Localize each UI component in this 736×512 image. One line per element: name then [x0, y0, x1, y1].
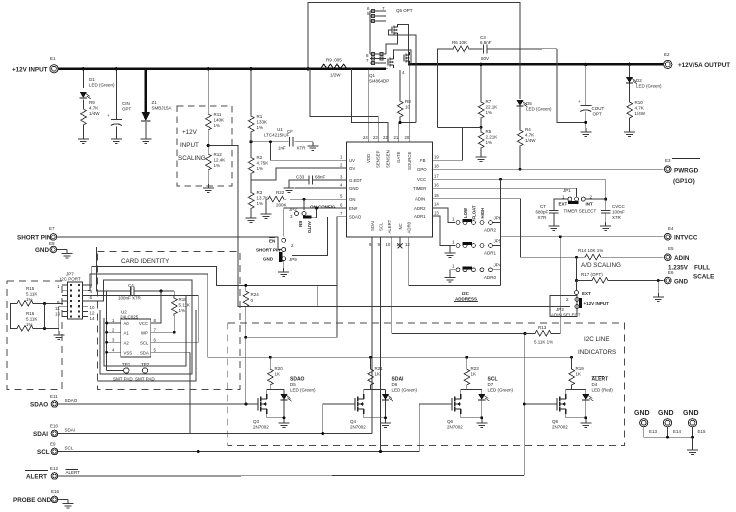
svg-text:AUTO: AUTO: [307, 221, 312, 234]
wire U2 SDA riser: [189, 352, 191, 433]
svg-text:E4: E4: [668, 226, 674, 231]
svg-text:E11: E11: [50, 394, 58, 399]
resistor R3: [248, 191, 254, 211]
ground E15: [687, 446, 698, 455]
LED D2: [629, 64, 631, 77]
svg-text:A/D SCALING: A/D SCALING: [581, 262, 621, 269]
node R11/R12 junction: [207, 144, 210, 147]
wire SDAI pin8 down: [371, 237, 373, 434]
LED D5 SDAO: [283, 390, 285, 395]
resistor R5: [478, 130, 484, 150]
svg-text:SENSEN: SENSEN: [385, 150, 390, 168]
svg-text:CIN: CIN: [122, 101, 130, 106]
svg-text:4.7K: 4.7K: [635, 106, 644, 111]
svg-text:I2C PORT: I2C PORT: [60, 276, 81, 281]
wire JP1 EXT to CT: [554, 199, 568, 210]
wire kelvin SENSEN: [352, 69, 388, 142]
terminal E13: [640, 419, 648, 427]
wire header pin4 route to indicator rail: [88, 274, 208, 290]
svg-text:680pF: 680pF: [536, 209, 549, 214]
resistor R1: [248, 114, 254, 134]
jumper JP9: [282, 238, 286, 242]
svg-text:LED (Green): LED (Green): [290, 388, 316, 393]
wire SDAO net line: [58, 403, 258, 405]
wire D1 branch: [82, 69, 84, 88]
svg-text:1%: 1%: [486, 110, 493, 115]
svg-text:21: 21: [394, 135, 399, 140]
svg-text:ADR2: ADR2: [484, 228, 497, 233]
dashed box pullups: [7, 281, 62, 390]
svg-text:SCL: SCL: [140, 340, 149, 345]
wire Q3 gate SDAO: [246, 403, 258, 405]
resistor R4: [517, 128, 523, 148]
capacitor CSS: [313, 179, 347, 181]
transistor Q5 symbol: [392, 24, 398, 36]
wire R22 to gnd: [265, 199, 267, 210]
resistor R23: [466, 357, 468, 367]
U1 bottom pin labels: [369, 219, 411, 247]
svg-text:+12V INPUT: +12V INPUT: [584, 301, 610, 306]
resistor R19: [570, 356, 573, 359]
LED D4 ALERT (Red): [585, 390, 587, 395]
svg-text:4.7K: 4.7K: [525, 133, 534, 138]
svg-text:+12V: +12V: [182, 129, 198, 136]
svg-text:ON: ON: [349, 197, 355, 202]
svg-text:VCC: VCC: [417, 177, 426, 182]
svg-text:100nF X7R: 100nF X7R: [118, 296, 142, 301]
wire Q3 source + LED cathode to gnd: [267, 414, 284, 418]
svg-text:133K: 133K: [257, 120, 268, 125]
resistor R12: [206, 152, 212, 172]
svg-text:Z1: Z1: [152, 100, 158, 105]
node U2 VCC junction: [160, 290, 163, 293]
wire R15/R16 junction risers: [44, 304, 46, 329]
capacitor CVCC: [605, 179, 607, 210]
jumper JP2 ON CONFIG: [303, 199, 305, 210]
wire Q5 gate to gate net: [389, 30, 417, 123]
ground CT: [548, 222, 559, 231]
svg-text:TIMER: TIMER: [413, 186, 426, 191]
svg-text:X7R: X7R: [538, 215, 548, 220]
svg-text:2N7002: 2N7002: [350, 425, 366, 430]
wire SCL pin9 down: [380, 237, 382, 452]
svg-text:NC: NC: [398, 223, 403, 229]
svg-text:I2C: I2C: [462, 291, 470, 296]
svg-text:I2C LINE: I2C LINE: [584, 336, 610, 343]
wire U2 right pins: [151, 332, 199, 352]
svg-text:13: 13: [55, 312, 61, 317]
U1 top pin labels: [363, 135, 412, 170]
wire ON pin5: [290, 198, 347, 200]
resistor R18 pullup: [173, 291, 175, 296]
svg-text:R1: R1: [257, 114, 263, 119]
ground below R5: [476, 153, 487, 162]
svg-text:R3: R3: [257, 190, 263, 195]
wire R8 to GATE pin: [400, 118, 416, 123]
transistor Q1 symbol b: [404, 52, 410, 64]
svg-text:13: 13: [434, 211, 439, 216]
svg-text:20: 20: [405, 135, 410, 140]
ground below R3: [246, 214, 257, 223]
svg-text:R13: R13: [538, 325, 547, 330]
resistor R7 column from output rail: [480, 64, 482, 100]
resistor R21: [370, 357, 372, 367]
pin11 NC stub with X: [399, 237, 401, 246]
svg-text:1%: 1%: [257, 125, 264, 130]
ground header odd pins: [59, 306, 62, 331]
svg-text:R11: R11: [214, 112, 222, 117]
svg-text:GND: GND: [658, 410, 674, 417]
transistor Q3: [258, 394, 267, 414]
ground below Z1: [140, 135, 151, 144]
svg-text:R9: R9: [89, 100, 95, 105]
wire FB node row: [438, 126, 482, 128]
wire SOURCE pin to output rail: [409, 64, 411, 141]
jumper JP6 ADR2: [456, 221, 460, 225]
svg-text:VSS: VSS: [124, 350, 133, 355]
resistor R8: [397, 99, 403, 119]
svg-text:24: 24: [363, 135, 368, 140]
wire Q6 gate SCL riser: [419, 404, 452, 452]
svg-text:D4: D4: [592, 382, 598, 387]
wire ALERT net line: [58, 475, 524, 478]
wire E8 to ground: [57, 249, 67, 251]
wire GND pin4: [295, 187, 347, 189]
svg-text:WP: WP: [141, 330, 148, 335]
svg-text:1%: 1%: [179, 308, 186, 313]
wire CF row: [251, 141, 289, 143]
svg-text:SDAO: SDAO: [349, 215, 362, 220]
ground below R12: [203, 184, 214, 193]
svg-text:ADR2: ADR2: [414, 206, 426, 211]
wire rail feed riser: [207, 274, 209, 357]
svg-text:Q1: Q1: [369, 73, 376, 78]
svg-text:GND: GND: [634, 410, 650, 417]
svg-text:R5: R5: [486, 129, 492, 134]
ground CF: [307, 142, 318, 151]
ground cell4: [580, 419, 591, 428]
wire ADIN pin15: [433, 199, 577, 258]
svg-text:C33: C33: [296, 175, 305, 180]
wire VCC riser to jumpers: [500, 179, 502, 285]
svg-text:1K: 1K: [275, 372, 281, 377]
svg-text:R16: R16: [26, 311, 35, 316]
wire input rail +12V: [59, 67, 387, 70]
svg-text:1%: 1%: [214, 123, 221, 128]
wire R15/R16 left tie: [11, 304, 16, 329]
svg-text:+12V INPUT: +12V INPUT: [12, 66, 48, 73]
wire U2 left pins: [107, 291, 123, 371]
wire header SCL row: [88, 296, 198, 343]
wire R6/C3 row: [438, 49, 452, 127]
svg-text:+: +: [107, 113, 110, 118]
wire TIMER pin16 to JP1: [433, 188, 577, 197]
svg-text:FULL: FULL: [694, 264, 710, 271]
resistor R14: [583, 254, 603, 260]
resistor R13: [525, 333, 533, 335]
svg-text:LED (Green): LED (Green): [526, 107, 552, 112]
svg-text:11: 11: [55, 306, 60, 311]
wire routing rect a: [104, 296, 186, 366]
ground below R9: [78, 135, 89, 144]
svg-text:22: 22: [383, 135, 388, 140]
ground JP5 left: [450, 246, 455, 250]
U1 left pin labels: [340, 155, 363, 220]
svg-text:CVCC: CVCC: [612, 204, 626, 209]
capacitor CT: [549, 210, 559, 213]
terminal E11 SDAO: [51, 401, 58, 408]
ground R22: [261, 210, 272, 219]
wire D2 to R10: [629, 83, 631, 100]
svg-text:LED (Green): LED (Green): [392, 388, 418, 393]
svg-text:ON CONFIG: ON CONFIG: [310, 205, 336, 210]
wire R11 branch: [207, 69, 209, 112]
wire R4 to GPO line: [519, 147, 521, 169]
terminal E3 PWRGD: [664, 166, 671, 173]
wire Z1 to gnd: [145, 122, 147, 135]
svg-text:R15: R15: [26, 286, 35, 291]
wire ADR0 pin12 route: [409, 237, 501, 286]
svg-text:OV: OV: [349, 166, 355, 171]
wire R24 to SDAO pin7: [246, 336, 337, 338]
svg-text:SDAO: SDAO: [30, 402, 48, 409]
svg-text:COUT: COUT: [592, 106, 605, 111]
svg-text:D5: D5: [290, 382, 296, 387]
ground E6: [657, 281, 659, 294]
svg-text:ALERT: ALERT: [66, 470, 81, 475]
svg-text:2.21K: 2.21K: [486, 135, 498, 140]
svg-text:R21: R21: [375, 366, 384, 371]
resistor R16: [15, 326, 35, 332]
svg-text:E5: E5: [668, 246, 674, 251]
resistor R22: [266, 196, 286, 202]
svg-text:1/2W: 1/2W: [330, 73, 341, 78]
svg-text:12: 12: [405, 242, 410, 247]
svg-text:R7: R7: [486, 99, 492, 104]
svg-text:JP1: JP1: [563, 188, 571, 193]
wire INTVCC riser: [500, 179, 502, 237]
terminal E8 GND: [50, 246, 57, 253]
terminal E1 +12V INPUT: [50, 65, 58, 73]
node R1/R2 junction: [249, 140, 252, 143]
svg-text:TIMER SELECT: TIMER SELECT: [564, 209, 597, 214]
svg-text:1/4W: 1/4W: [525, 138, 536, 143]
junction dots input rail: [82, 67, 310, 70]
svg-text:Q6: Q6: [447, 419, 454, 424]
terminal E9 SCL: [51, 448, 58, 455]
resistor R6: [451, 46, 471, 52]
svg-text:R2: R2: [257, 155, 263, 160]
transistor Q8: [557, 394, 566, 414]
wire R1 branch: [250, 69, 252, 114]
svg-text:5.11K: 5.11K: [26, 292, 37, 297]
svg-text:(GP1O): (GP1O): [673, 178, 695, 185]
terminal E7 SHORT PIN: [50, 234, 57, 241]
wire JP2 to EN column: [312, 208, 317, 218]
terminal E6 GND: [664, 277, 671, 284]
jumper JP5 ADR1: [456, 244, 460, 248]
svg-text:10: 10: [386, 242, 391, 247]
svg-text:1K: 1K: [576, 372, 582, 377]
jumper JP4 ADR0: [456, 268, 460, 272]
svg-text:EN#: EN#: [349, 206, 358, 211]
svg-text:SENSEP: SENSEP: [376, 150, 381, 168]
svg-text:R10: R10: [635, 100, 644, 105]
svg-text:EN: EN: [269, 238, 275, 243]
svg-text:18: 18: [434, 164, 439, 169]
svg-text:+12V/5A OUTPUT: +12V/5A OUTPUT: [678, 62, 730, 69]
svg-text:14: 14: [434, 202, 439, 207]
svg-text:EN: EN: [298, 221, 303, 227]
wire SCL net line: [58, 451, 419, 453]
wire output rail +12V/5A: [408, 63, 664, 66]
svg-text:OPT: OPT: [122, 107, 132, 112]
ground cell2: [380, 419, 391, 428]
svg-text:R20: R20: [275, 366, 284, 371]
svg-text:VCC: VCC: [139, 321, 148, 326]
wire C3 right drop: [557, 49, 586, 123]
wire ALERT pin10 down: [391, 237, 393, 334]
svg-text:50V: 50V: [481, 56, 489, 61]
wire gnd bus: [644, 427, 693, 437]
svg-text:E2: E2: [664, 52, 670, 57]
svg-text:R24: R24: [251, 292, 260, 297]
svg-text:R8: R8: [405, 99, 411, 104]
svg-text:140K: 140K: [214, 118, 225, 123]
resistor R11: [206, 112, 212, 132]
terminal E14: [663, 419, 671, 427]
svg-text:GND: GND: [35, 247, 49, 254]
svg-text:13.7K: 13.7K: [257, 196, 269, 201]
resistor R24: [245, 285, 247, 289]
svg-text:LED (Red): LED (Red): [592, 388, 614, 393]
svg-text:E3: E3: [665, 158, 671, 163]
svg-text:EXT: EXT: [559, 202, 568, 207]
wire SDAO pin7: [337, 217, 347, 338]
wire R15 to header: [34, 303, 63, 305]
svg-text:ADR0: ADR0: [484, 275, 497, 280]
svg-text:SHORT PIN: SHORT PIN: [256, 248, 281, 253]
svg-text:D5: D5: [526, 101, 532, 106]
svg-text:LED (Green): LED (Green): [89, 83, 115, 88]
ground JP4 left: [450, 270, 455, 274]
wire JP1 INT to CVCC riser: [585, 198, 605, 200]
svg-text:100nF: 100nF: [612, 209, 625, 214]
wire Q5 drain to output rail: [398, 24, 409, 64]
svg-text:INPUT: INPUT: [180, 142, 199, 149]
wire VDD pin to rail: [368, 69, 370, 142]
wire top routing box (rail to D5 anode): [308, 3, 520, 100]
LED D7 SCL: [481, 390, 483, 395]
svg-text:2N7002: 2N7002: [447, 425, 463, 430]
svg-text:ADIN: ADIN: [415, 197, 425, 202]
svg-text:ALERT: ALERT: [387, 219, 392, 233]
svg-text:D6: D6: [392, 382, 398, 387]
svg-text:1/4W: 1/4W: [635, 111, 646, 116]
svg-text:1%: 1%: [486, 140, 493, 145]
ground below R10: [624, 128, 635, 137]
svg-text:VDD: VDD: [366, 154, 371, 163]
svg-text:D1: D1: [89, 77, 95, 82]
wire CIN branch: [115, 69, 117, 119]
svg-text:E14: E14: [673, 429, 682, 434]
wire ADR1 pin13 to JP5: [433, 216, 456, 246]
wire routing rect b: [88, 280, 192, 374]
svg-text:UV: UV: [349, 158, 355, 163]
resistor R2 sense .005: [321, 64, 347, 69]
svg-text:E12: E12: [50, 466, 59, 471]
svg-text:15: 15: [434, 193, 439, 198]
dashed box card identity: [98, 252, 241, 390]
terminal E12 ALERT: [51, 473, 58, 480]
svg-text:12.4K: 12.4K: [214, 158, 226, 163]
svg-text:GND: GND: [263, 257, 274, 262]
svg-text:R19: R19: [576, 366, 585, 371]
svg-text:SDAI: SDAI: [370, 221, 375, 231]
svg-text:A0: A0: [124, 321, 130, 326]
svg-text:SOURCE: SOURCE: [407, 151, 412, 170]
transistor Q6: [452, 394, 461, 414]
svg-text:EXT: EXT: [582, 291, 591, 296]
svg-text:ALERT: ALERT: [26, 474, 47, 481]
svg-text:SDA: SDA: [140, 350, 149, 355]
terminal E4 INTVCC: [664, 233, 671, 240]
jumper JP3 ADIN SELECT: [550, 296, 577, 317]
svg-text:FB: FB: [420, 158, 426, 163]
resistor R20: [269, 357, 271, 367]
svg-text:ADR0: ADR0: [406, 221, 411, 233]
ground CVCC: [600, 222, 611, 231]
svg-text:GND: GND: [674, 278, 688, 285]
svg-text:1K: 1K: [471, 372, 477, 377]
svg-text:1nF: 1nF: [278, 146, 286, 151]
transistor Q4: [355, 394, 364, 414]
svg-text:SCL: SCL: [65, 446, 74, 451]
svg-text:16: 16: [434, 183, 439, 188]
wire JP6 right to VCC riser: [493, 222, 501, 224]
wire Z1 stub (thick): [145, 69, 147, 112]
wire R24 bottom: [245, 308, 247, 404]
svg-text:U1: U1: [277, 127, 283, 132]
svg-text:CT: CT: [540, 204, 546, 209]
svg-text:D7: D7: [488, 382, 494, 387]
svg-text:1%: 1%: [26, 322, 33, 327]
svg-text:PROBE GND: PROBE GND: [13, 497, 52, 504]
svg-text:R17 (OPT): R17 (OPT): [581, 272, 603, 277]
svg-text:HIGH: HIGH: [480, 208, 485, 219]
svg-text:+: +: [578, 99, 581, 104]
wire Q3 drain: [267, 390, 271, 395]
ground cell1: [279, 419, 290, 428]
svg-text:68nF: 68nF: [315, 175, 326, 180]
wire FB pin19: [433, 127, 463, 160]
svg-text:XTR: XTR: [297, 146, 307, 151]
svg-text:5.11K: 5.11K: [26, 317, 37, 322]
svg-text:22.1K: 22.1K: [486, 105, 498, 110]
LED D5: [516, 100, 527, 107]
svg-text:17: 17: [434, 174, 439, 179]
svg-text:E9: E9: [50, 442, 56, 447]
wire R13 to INTVCC: [552, 237, 560, 334]
svg-text:2N7002: 2N7002: [253, 425, 269, 430]
svg-text:1%: 1%: [257, 201, 264, 206]
terminal E5 ADIN: [664, 254, 671, 261]
svg-text:1/4W: 1/4W: [89, 111, 100, 116]
svg-text:5.11K 1%: 5.11K 1%: [534, 340, 553, 345]
zener Z1: [142, 112, 151, 121]
ground cell3: [476, 419, 487, 428]
svg-text:SCALING: SCALING: [178, 155, 206, 162]
